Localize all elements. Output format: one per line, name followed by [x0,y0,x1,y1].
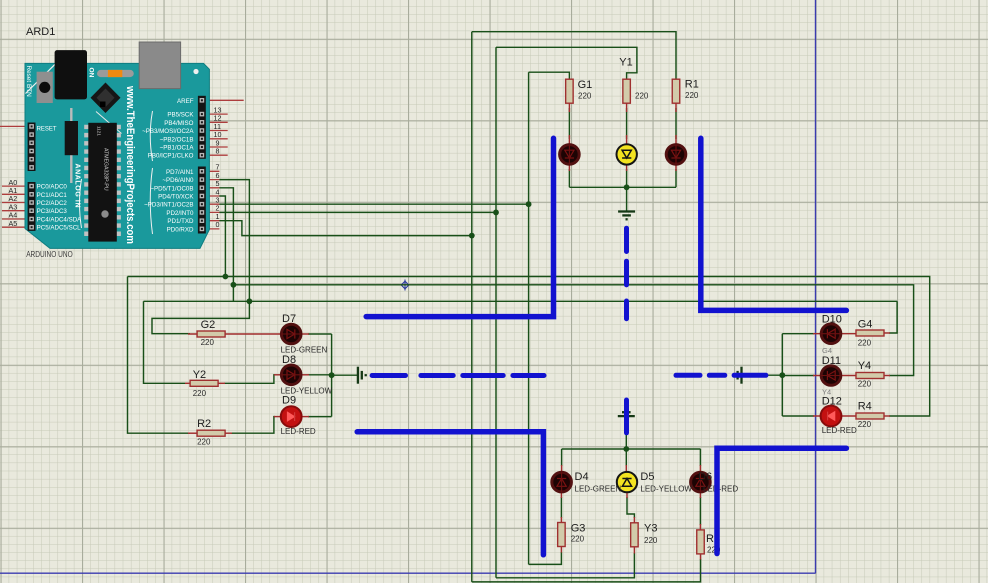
wire R3 bottom feed [472,559,701,582]
resistor Y1 [623,79,631,103]
ground left group [358,367,366,384]
wire pin 2 horizontal [219,211,496,213]
road edge south-east [717,448,846,553]
wire D7 to common [308,333,332,335]
header digital lower strip [198,167,206,234]
header analog strip [28,182,36,231]
lead G1 bottom [568,103,570,112]
lead Y4 right [883,375,890,377]
power LED ON [97,70,134,77]
junction node right common [779,372,785,378]
resistor Y3 [631,523,639,547]
wire D9 to common [308,416,332,418]
resistor R2 [197,430,225,436]
svg-text:D9: D9 [282,395,296,407]
svg-text:D10: D10 [822,314,842,326]
junction node left common [329,372,335,378]
svg-text:Y4: Y4 [858,360,871,372]
svg-text:LED-GREEN: LED-GREEN [575,485,622,494]
wire Y1 to LED D2 [626,108,628,139]
wire G1 to LED D1 [568,108,570,139]
wire yellow net to Y4 [233,285,913,376]
power jack [55,50,87,99]
wire G3 bottom feed [529,552,562,564]
lead R2 right [225,432,232,434]
svg-text:ATMEGA328P-PU: ATMEGA328P-PU [103,148,109,191]
wire pin 6 to west-green net [219,180,249,302]
wire D8 to common [308,374,332,376]
wire north-south green vertical [528,72,530,564]
svg-text:D6: D6 [698,471,712,483]
svg-text:ARDUINO UNO: ARDUINO UNO [26,249,73,259]
svg-text:~PB3/MOSI/OC2A: ~PB3/MOSI/OC2A [142,128,194,135]
junction node pin3 net [526,201,532,207]
svg-text:1121: 1121 [97,126,102,136]
svg-text:PC5/ADC5/SCL: PC5/ADC5/SCL [37,225,82,232]
lead D10 row [813,333,857,335]
pads analog header [29,184,34,230]
svg-text:D8: D8 [282,354,296,366]
svg-text:~PB1/OC1A: ~PB1/OC1A [160,145,195,152]
road edge south-west [357,432,543,555]
resistor G3 [558,523,566,547]
ground right group [734,367,742,384]
wire G4 drop [889,301,897,333]
resistor R1 [672,79,680,103]
svg-text:220: 220 [197,438,211,447]
svg-text:D4: D4 [575,471,589,483]
silkscreen brace right lower [150,168,152,234]
lead R3 [699,524,701,560]
wire D5 to Y3 jog [627,497,634,518]
svg-text:G2: G2 [201,319,216,331]
svg-text:www.TheEngineeringProjects.com: www.TheEngineeringProjects.com [124,85,136,244]
svg-text:220: 220 [858,339,872,348]
svg-text:ANALOG IN: ANALOG IN [74,164,81,208]
junction node pin2 net [493,210,499,216]
svg-text:R1: R1 [685,79,699,91]
svg-text:AREF: AREF [177,98,194,105]
lead D8 left [274,374,281,376]
wire top common rail [569,186,676,188]
wire pin 5 down [219,188,233,301]
wire jog to G2 [152,301,249,333]
wire Y1 top feed [496,47,637,79]
lead D8 right [301,374,309,376]
svg-text:LED-GREEN: LED-GREEN [281,346,328,355]
lead R2 left [188,432,197,434]
pin stubs 13-8 [206,114,228,155]
wire R2 to D9 jog [231,417,275,434]
svg-text:G4: G4 [822,346,832,355]
wire top LED commons [569,169,676,187]
wire pin 3 horizontal [219,203,528,205]
svg-text:220: 220 [578,92,592,101]
svg-text:PB0/ICP1/CLKO: PB0/ICP1/CLKO [148,153,194,160]
lead D9 left [274,416,281,418]
svg-text:PB5/SCK: PB5/SCK [167,112,194,119]
wire G1 top feed [529,72,570,79]
svg-text:LED-YELLOW: LED-YELLOW [281,386,333,395]
svg-text:R4: R4 [858,401,872,413]
lead Y1 bottom [626,103,628,112]
svg-text:PD1/TXD: PD1/TXD [167,218,194,225]
wire Y2 feed [144,301,186,383]
lead G2 to D7 [188,333,281,335]
svg-text:G4: G4 [858,319,873,331]
junction node pin4 net [223,274,229,280]
svg-text:G3: G3 [571,523,586,535]
svg-text:220: 220 [858,380,872,389]
svg-text:A5: A5 [9,219,18,228]
lead R1 bottom [675,103,677,112]
wire pin 1 horizontal [219,221,472,236]
road edge north-east [701,138,847,310]
wire D6 to R3 [699,497,701,525]
lead bottom LED stubs [561,465,700,498]
wire common to D11 [782,375,814,377]
ground top group [618,212,635,220]
svg-text:G1: G1 [578,79,593,91]
svg-text:220: 220 [858,420,872,429]
svg-text:LED-RED: LED-RED [281,427,316,436]
wire R1 top feed [472,32,676,80]
header reset strip [28,123,36,172]
ATMEGA328P pads [84,125,89,236]
mounting hole [193,69,198,74]
svg-text:RESET: RESET [37,127,57,133]
svg-text:PC2/ADC2: PC2/ADC2 [37,200,68,207]
capacitor [70,108,72,183]
LED D8 yellow off [281,365,301,385]
svg-text:LED-RED: LED-RED [703,485,738,494]
pads reset header [29,124,34,170]
svg-text:~PB2/OC1B: ~PB2/OC1B [160,136,194,143]
LED D10 green off [821,324,841,344]
svg-text:PD2/INT0: PD2/INT0 [166,210,194,217]
silkscreen brace analog [80,179,82,228]
wire left ground stem [332,374,358,376]
sheet border right edge [815,0,817,573]
LED D2 yellow lit [617,144,637,164]
road center dash south [624,400,629,433]
svg-text:PC3/ADC3: PC3/ADC3 [37,208,68,215]
wire left group common vertical [331,334,333,417]
junction node bottom common [623,446,629,452]
resistor G4 [856,330,884,336]
svg-text:LED-RED: LED-RED [822,426,857,435]
wire bottom ground stem [625,416,627,449]
wire red net to R4 [128,277,930,417]
svg-text:220: 220 [571,535,585,544]
svg-text:~PD3/INT1/OC2B: ~PD3/INT1/OC2B [144,202,193,209]
header digital upper strip [198,96,206,159]
svg-text:Y1: Y1 [619,57,632,69]
svg-text:Y2: Y2 [193,369,206,381]
wire common drop D4 [561,449,563,466]
wire D4 to G3 [560,497,562,518]
resistor Y4 [856,373,884,379]
wire right group common vertical [781,334,783,416]
svg-text:PC1/ADC1: PC1/ADC1 [37,192,68,199]
LED D12 red lit [821,406,842,427]
svg-text:PB4/MISO: PB4/MISO [164,120,193,127]
wire right ground stem [742,374,783,376]
svg-text:PD7/AIN1: PD7/AIN1 [166,169,194,176]
svg-text:D11: D11 [822,355,841,367]
usb connector [139,42,180,89]
resistor R3 [697,530,705,554]
wire common to D12 [782,415,814,417]
svg-text:ON: ON [88,68,95,78]
wire Y2 to D8 jog [224,375,275,384]
LED D5 yellow lit [617,472,637,492]
lead R4 right [883,415,890,417]
svg-text:LED-YELLOW: LED-YELLOW [640,485,692,494]
svg-text:Y3: Y3 [644,523,657,535]
wire north-south red vertical [471,32,473,582]
silkscreen brace right upper [150,111,152,161]
svg-text:220: 220 [644,536,658,545]
resistor G1 [566,79,574,103]
wire reset stub [0,125,28,127]
svg-text:R2: R2 [197,418,211,430]
LED D9 red lit [281,406,302,427]
reset button [37,72,53,103]
svg-text:220: 220 [635,92,649,101]
ground bottom group [618,408,635,416]
LED D7 green off [281,324,301,344]
svg-text:PD4/T0/XCK: PD4/T0/XCK [158,194,194,201]
junction node pin1 net [469,233,475,239]
wire Y3 bottom feed [496,553,634,578]
wire pin 4 down [219,196,225,277]
svg-text:8: 8 [216,147,220,156]
resistor R4 [856,413,884,419]
LED D1 green off [560,145,580,165]
LED D3 red off [666,145,686,165]
svg-text:~PD6/AIN0: ~PD6/AIN0 [162,177,194,184]
road edge north-west [366,138,553,316]
road center dashes west [372,373,544,378]
svg-text:PD0/RXD: PD0/RXD [167,226,194,233]
svg-text:Reset BTN: Reset BTN [25,66,32,98]
resistor G2 [197,331,225,337]
svg-text:220: 220 [201,338,215,347]
LED D11 yellow off [821,366,841,386]
junction node pin6 net [247,298,253,304]
lead Y2 right [216,382,225,384]
lead D9 right [301,416,309,418]
svg-text:D7: D7 [282,313,296,325]
pads digital lower header [200,169,205,231]
svg-text:~PD5/T1/OC0B: ~PD5/T1/OC0B [150,185,193,192]
resistor Y2 [190,380,218,386]
svg-text:D12: D12 [822,396,842,408]
lead D12 row [813,415,857,417]
lead Y2 left [185,382,192,384]
origin marker [400,280,411,291]
lead D7 right [301,333,309,335]
sheet border bottom edge [0,572,816,574]
road center dashes east [676,373,766,378]
svg-text:PC0/ADC0: PC0/ADC0 [37,184,68,191]
arduino ARD1 board [25,63,209,248]
wire top ground stem [626,187,628,211]
LED D6 red off [691,472,711,492]
svg-text:220: 220 [193,389,207,398]
svg-text:ARD1: ARD1 [26,26,55,38]
svg-text:D5: D5 [640,471,654,483]
wire common drop D5 [625,449,627,466]
junction node pin5 net [231,282,237,288]
lead top LEDs stubs [569,135,676,171]
lead G3 [560,517,562,553]
pin stub AREF [206,99,244,101]
pin stubs 7-0 [206,171,220,229]
lead Y3 [633,517,635,554]
svg-text:Y4: Y4 [822,388,831,397]
wire common to D10 [782,333,814,335]
lead D11 row [813,375,857,377]
pads digital upper header [200,98,205,158]
svg-text:PC4/ADC4/SDA: PC4/ADC4/SDA [37,217,83,224]
crystal [91,83,121,114]
wire green net horizontal bus [144,300,898,302]
pin stubs analog A0-A5 [2,186,28,227]
wire common drop D6 [699,449,701,466]
silkscreen diagonal near crystal [96,112,122,134]
wire north-south yellow vertical [495,47,497,578]
svg-text:0: 0 [216,220,220,229]
LED D4 green off [552,472,572,492]
wire R2 feed [128,277,191,434]
wire bottom common rail [562,448,701,450]
ATMEGA328P body [88,123,117,242]
wire R1 to LED D3 [675,108,677,139]
lead G4 right [883,332,890,334]
silkscreen diagonal top-left [26,64,56,94]
junction node top common [624,184,630,190]
road center dashes north [624,228,629,319]
svg-text:220: 220 [685,91,699,100]
